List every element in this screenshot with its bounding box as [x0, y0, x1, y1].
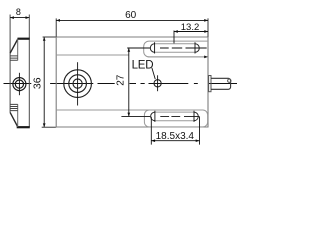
side view top chamfer diagonal [10, 39, 18, 53]
main body outline [56, 37, 208, 127]
internal top seam line [56, 54, 129, 56]
lower slot end ticks [155, 111, 194, 122]
sensing face middle circle [69, 75, 87, 93]
side view bottom chamfer diagonal [10, 112, 18, 127]
dimension 36 line with arrows [43, 37, 45, 127]
dimension 60 line with arrows [56, 19, 208, 21]
svg-text:27: 27 [116, 74, 127, 86]
svg-text:60: 60 [125, 10, 137, 21]
sensing face outer circle [64, 70, 92, 98]
side view left edge / dim-8 left extension line [9, 15, 11, 113]
dimension 18.5x3.4 line with arrows [151, 140, 199, 142]
svg-text:LED: LED [132, 60, 154, 72]
upper slot end ticks [155, 42, 195, 53]
side view bottom edge [17, 126, 30, 128]
upper slot obround [155, 44, 195, 53]
lower slot obround [155, 112, 194, 121]
sensing face vertical centerline [77, 62, 79, 105]
side view hole outer circle [13, 78, 26, 91]
internal bottom seam line [56, 109, 146, 111]
upper slot centerline [127, 47, 207, 49]
side view bottom grooves [10, 104, 18, 110]
body top edge extension to 36 dim [43, 36, 57, 38]
side view inner vertical bottom [17, 104, 19, 127]
side view inner vertical top [17, 39, 19, 61]
svg-text:36: 36 [31, 77, 43, 89]
dimension 18.5x3.4 left extension line [150, 117, 152, 145]
svg-text:18.5x3.4: 18.5x3.4 [156, 131, 195, 142]
side view hole vertical centerline [18, 73, 20, 95]
connector pin circle [228, 79, 231, 82]
bottom boss around lower slot [144, 110, 207, 127]
sensing face inner circle [73, 79, 82, 88]
side view hole inner circle [15, 80, 23, 88]
LED vertical tick [157, 75, 159, 91]
connector barrel [211, 78, 231, 89]
lower slot centerline [121, 115, 199, 117]
dimension 13.2 extension tick [173, 31, 175, 44]
LED leader line [152, 68, 155, 79]
dimension 8 line with arrows [10, 17, 29, 19]
dimension 60 right extension line [207, 18, 209, 36]
dimension 27 line with arrows [128, 48, 130, 116]
LED indicator circle [154, 80, 161, 87]
body bottom edge extension to 36 dim [42, 126, 57, 128]
svg-text:13.2: 13.2 [181, 22, 200, 33]
dimension 60 left extension line [55, 18, 57, 36]
arrowhead at step bottom right [204, 56, 208, 59]
side view top edge [18, 38, 30, 40]
dimension 18.5x3.4 right extension line [199, 117, 201, 145]
step bottom line to right edge [148, 56, 206, 58]
main horizontal centerline (dash-dot segments) [4, 83, 238, 85]
connector flange [209, 76, 211, 92]
side view right edge / dim-8 right extension line [28, 15, 30, 128]
svg-text:8: 8 [16, 7, 21, 17]
top-right step boss around upper slot [144, 41, 208, 57]
dimension 13.2 line with arrows [174, 31, 208, 33]
side view top grooves [10, 56, 18, 60]
